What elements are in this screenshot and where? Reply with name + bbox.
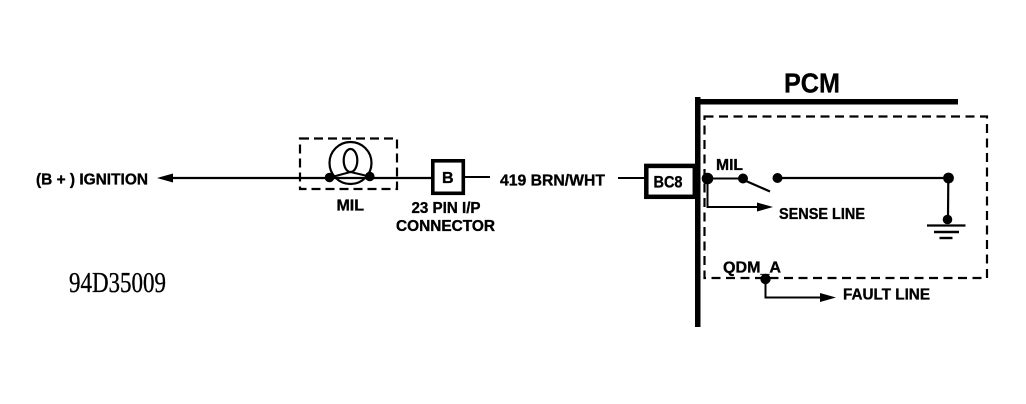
svg-text:MIL: MIL <box>716 157 743 174</box>
svg-text:QDM_A: QDM_A <box>723 260 781 277</box>
svg-text:PCM: PCM <box>784 67 840 98</box>
svg-text:SENSE LINE: SENSE LINE <box>779 206 865 223</box>
svg-text:94D35009: 94D35009 <box>69 267 166 299</box>
svg-text:B: B <box>442 170 454 187</box>
svg-text:MIL: MIL <box>337 198 365 215</box>
svg-text:23 PIN I/P: 23 PIN I/P <box>412 200 481 217</box>
svg-text:CONNECTOR: CONNECTOR <box>396 218 495 235</box>
svg-text:419 BRN/WHT: 419 BRN/WHT <box>500 173 605 190</box>
svg-text:(B + ) IGNITION: (B + ) IGNITION <box>36 172 148 189</box>
svg-text:BC8: BC8 <box>654 173 683 192</box>
svg-text:FAULT LINE: FAULT LINE <box>843 287 930 304</box>
